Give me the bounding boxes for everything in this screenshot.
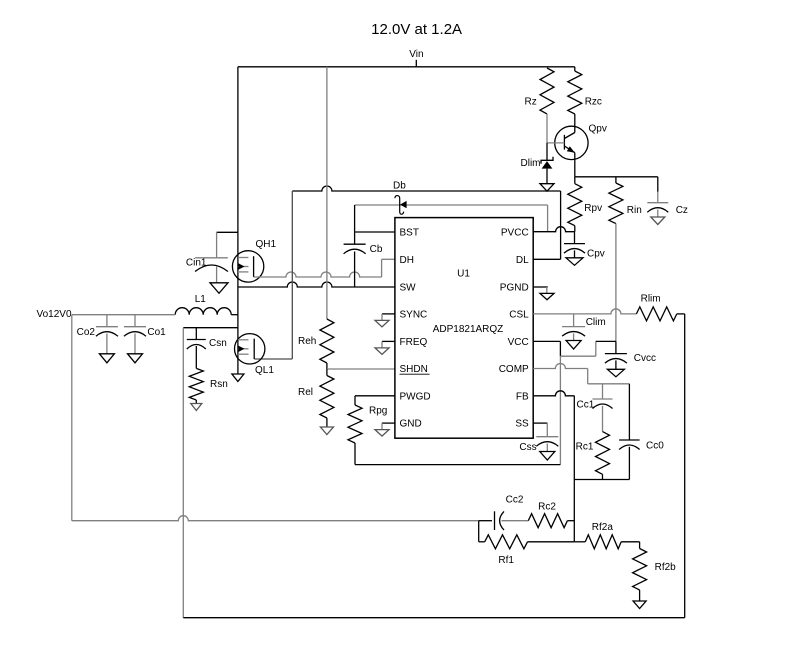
wire PGND stub: [533, 287, 548, 293]
svg-text:Csn: Csn: [209, 338, 227, 349]
label Rzc: [585, 97, 602, 108]
wire BST pin stub: [355, 231, 395, 233]
wire PWGD: [355, 396, 395, 405]
svg-text:Cc2: Cc2: [506, 495, 524, 506]
svg-text:Clim: Clim: [586, 317, 606, 328]
label Dlim: [521, 158, 541, 169]
wire bottom rail: [183, 617, 684, 619]
label Co1: [147, 327, 166, 338]
svg-text:Rsn: Rsn: [210, 379, 228, 390]
wire Vin to QH1 drain / QL1 chain: [237, 67, 239, 374]
label Vo12V0: [37, 309, 72, 320]
svg-text:Cin1: Cin1: [186, 258, 207, 269]
label Csn: [209, 338, 227, 349]
svg-text:SYNC: SYNC: [400, 309, 428, 320]
resistor Rin: [609, 177, 623, 224]
wire base to Dlim: [546, 143, 548, 160]
capacitor Cb: [344, 244, 366, 254]
svg-text:COMP: COMP: [499, 364, 529, 375]
transistor QL1 body: [235, 334, 265, 364]
resistor Rsn: [189, 368, 203, 403]
wire Co2 stub: [106, 315, 108, 327]
wire PVCC: [533, 227, 574, 232]
svg-text:Vo12V0: Vo12V0: [37, 309, 72, 320]
wire snubber: [183, 327, 238, 329]
wire Cin1 stub: [217, 232, 238, 257]
node Vin label: [409, 49, 423, 67]
wire DL route right vertical: [560, 191, 562, 259]
ground Cvcc: [607, 369, 624, 377]
label Rc2: [538, 502, 556, 513]
wire SYNC pin stub: [382, 314, 395, 321]
ground Rsn: [191, 404, 202, 411]
svg-text:Cvcc: Cvcc: [634, 353, 656, 364]
diode Dlim: [541, 157, 553, 184]
ground Co1: [128, 354, 143, 363]
wire FREQ pin stub: [382, 341, 395, 348]
ground SYNC pin: [375, 320, 389, 327]
label Cc2: [506, 495, 524, 506]
capacitor Cvcc: [605, 341, 627, 369]
wire VCC: [533, 341, 616, 356]
svg-text:Db: Db: [393, 181, 406, 192]
svg-text:FREQ: FREQ: [400, 337, 428, 348]
ground Co2: [99, 354, 114, 363]
label Css: [519, 442, 536, 453]
wire comp bottom: [574, 479, 629, 481]
svg-text:Dlim: Dlim: [521, 158, 541, 169]
wire DL pin stub: [533, 258, 560, 260]
wire right rail: [684, 314, 686, 618]
wire QL1 gate: [254, 358, 292, 360]
label Rel: [298, 387, 313, 398]
svg-text:Rzc: Rzc: [585, 97, 602, 108]
svg-text:Rz: Rz: [525, 97, 537, 108]
label Cin1: [186, 258, 207, 269]
label Rlim: [641, 294, 661, 305]
svg-text:SHDN: SHDN: [400, 364, 428, 375]
capacitor Cin1: [195, 258, 228, 283]
svg-text:QL1: QL1: [255, 365, 274, 376]
svg-text:PGND: PGND: [500, 283, 529, 294]
capacitor Cc0: [619, 384, 640, 480]
svg-text:CSL: CSL: [509, 309, 529, 320]
title text: [371, 21, 462, 38]
label Db: [393, 181, 406, 192]
wire Qpv emitter node: [575, 176, 658, 178]
wire GND pin stub: [382, 423, 395, 430]
capacitor Cz: [647, 203, 668, 217]
wire SHDN: [327, 368, 395, 370]
wire COMP: [533, 364, 629, 384]
label Rin: [627, 205, 642, 216]
ground Cz: [651, 217, 665, 225]
capacitor Clim: [562, 327, 585, 341]
capacitor Cpv: [564, 232, 585, 258]
resistor Rpv: [568, 177, 582, 232]
svg-text:Rlim: Rlim: [641, 294, 661, 305]
svg-text:BST: BST: [400, 228, 419, 239]
wire DH pin route: [254, 259, 395, 277]
ground Cin1: [210, 283, 228, 294]
wire Clim stub: [573, 314, 575, 327]
label Cb: [370, 244, 383, 255]
svg-text:PVCC: PVCC: [501, 228, 529, 239]
ground Rf2b: [633, 601, 646, 609]
svg-text:VCC: VCC: [508, 337, 529, 348]
wire Vo left vertical: [71, 315, 73, 521]
svg-text:Vin: Vin: [409, 49, 423, 60]
label Cz: [676, 205, 688, 216]
label Rf1: [498, 555, 514, 566]
capacitor Csn: [187, 340, 206, 369]
label L1: [195, 294, 207, 305]
wire BST vertical upper: [354, 205, 356, 244]
wire Vo feedback: [72, 516, 479, 521]
U1 pin labels: [400, 228, 530, 430]
transistor QH1 body: [232, 251, 263, 282]
label QH1: [256, 239, 277, 250]
label Cpv: [587, 249, 605, 260]
wire FB vertical: [573, 396, 575, 542]
label Rf2b: [655, 562, 677, 573]
wire SW to IC: [238, 282, 395, 287]
svg-text:DH: DH: [400, 255, 414, 266]
ground Clim: [566, 341, 581, 350]
svg-text:ADP1821ARQZ: ADP1821ARQZ: [433, 324, 504, 335]
ground Dlim: [540, 184, 554, 192]
wire Rpg to VCC: [355, 464, 560, 466]
svg-text:Co1: Co1: [147, 327, 166, 338]
svg-text:Rf1: Rf1: [498, 555, 514, 566]
wire Db anode drop: [547, 205, 549, 232]
svg-text:Rc1: Rc1: [576, 441, 594, 452]
svg-text:Cc0: Cc0: [646, 441, 664, 452]
label Co2: [77, 327, 96, 338]
ground Rel: [320, 427, 333, 435]
wire SS stub: [533, 423, 547, 437]
svg-text:GND: GND: [400, 419, 422, 430]
svg-text:DL: DL: [516, 255, 529, 266]
svg-text:Rpv: Rpv: [584, 203, 602, 214]
resistor Rzc: [568, 67, 582, 127]
diode Db: [395, 196, 407, 215]
svg-text:Rel: Rel: [298, 387, 313, 398]
wire DL route top: [292, 186, 560, 191]
wire Qpv base: [547, 142, 564, 144]
svg-text:PWGD: PWGD: [400, 391, 431, 402]
svg-text:Css: Css: [519, 442, 536, 453]
svg-text:L1: L1: [195, 294, 207, 305]
ground QL1 source: [232, 374, 244, 382]
resistor Rf1: [479, 521, 575, 549]
svg-text:Cz: Cz: [676, 205, 688, 216]
label Reh: [298, 336, 316, 347]
wire Cz stub: [657, 177, 659, 203]
label Clim: [586, 317, 606, 328]
resistor Rc2: [528, 514, 574, 528]
capacitor Cc1: [593, 399, 613, 432]
svg-text:Rpg: Rpg: [369, 406, 387, 417]
svg-text:Qpv: Qpv: [589, 124, 607, 135]
label U1: [457, 269, 470, 280]
resistor Rlim: [636, 307, 684, 321]
resistor Rf2b: [633, 542, 647, 601]
wire DL route left vertical: [291, 191, 293, 359]
capacitor Co2: [96, 327, 118, 354]
svg-text:SW: SW: [400, 283, 417, 294]
svg-text:Rf2b: Rf2b: [655, 562, 677, 573]
wire Vin top rail: [238, 66, 575, 68]
label Rsn: [210, 379, 228, 390]
op-amp U1 ADP1821ARQZ box: [395, 218, 533, 439]
svg-text:QH1: QH1: [256, 239, 277, 250]
wire sense left vertical: [182, 328, 184, 618]
svg-text:FB: FB: [516, 391, 529, 402]
svg-text:Cc1: Cc1: [577, 400, 595, 411]
wire Co1 stub: [134, 315, 136, 327]
svg-text:12.0V at 1.2A: 12.0V at 1.2A: [371, 21, 462, 38]
capacitor Css: [536, 437, 558, 452]
svg-text:Rf2a: Rf2a: [592, 522, 614, 533]
wire Cc1 stub: [602, 384, 604, 399]
resistor Rc1: [596, 432, 610, 480]
wire Csn stub: [195, 328, 197, 340]
label QL1: [255, 365, 274, 376]
svg-text:Cpv: Cpv: [587, 249, 605, 260]
label Qpv: [589, 124, 607, 135]
capacitor Cc2: [479, 511, 529, 530]
resistor Reh: [320, 319, 334, 369]
wire VCC to Rpg: [559, 356, 561, 464]
label Rc1: [576, 441, 594, 452]
label Rf2a: [592, 522, 614, 533]
label Cvcc: [634, 353, 656, 364]
transistor Qpv: [555, 126, 588, 177]
resistor Rf2a: [574, 535, 639, 549]
wire FB: [533, 391, 574, 396]
ground Css: [540, 452, 555, 461]
svg-text:Co2: Co2: [77, 327, 96, 338]
wire Vo output: [72, 314, 175, 316]
svg-text:Rc2: Rc2: [538, 502, 556, 513]
capacitor Co1: [124, 327, 146, 354]
label Rpv: [584, 203, 602, 214]
svg-text:SS: SS: [515, 419, 529, 430]
wire Rin to VCC: [615, 224, 617, 342]
svg-text:Cb: Cb: [370, 244, 383, 255]
ground FREQ pin: [375, 348, 389, 355]
label Cc1: [577, 400, 595, 411]
resistor Rel: [320, 369, 334, 427]
ground Cpv: [566, 258, 583, 266]
label Rpg: [369, 406, 387, 417]
label Cc0: [646, 441, 664, 452]
wire Db net: [355, 204, 548, 206]
label Rz: [525, 97, 537, 108]
resistor Rz: [540, 68, 554, 143]
label ADP1821ARQZ: [433, 324, 504, 335]
wire CSL: [533, 309, 636, 314]
svg-text:U1: U1: [457, 269, 470, 280]
svg-text:Rin: Rin: [627, 205, 642, 216]
wire Cb to SW: [354, 252, 356, 288]
ground GND pin: [375, 430, 389, 437]
ground PGND: [540, 293, 554, 299]
inductor L1: [175, 308, 238, 315]
resistor Rpg: [348, 405, 362, 465]
svg-text:Reh: Reh: [298, 336, 316, 347]
wire Vin to Reh: [326, 67, 328, 319]
